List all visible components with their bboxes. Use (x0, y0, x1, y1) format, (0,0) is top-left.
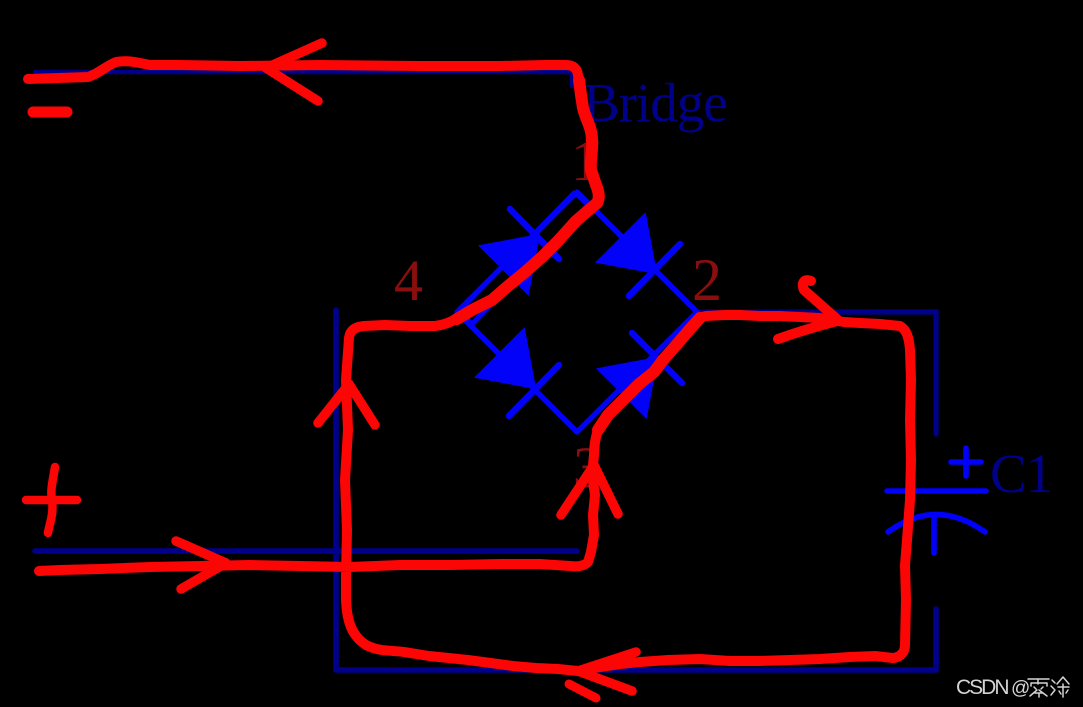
svg-text:Bridge: Bridge (583, 72, 727, 133)
red overlay diode arm 4-1 (457, 203, 597, 319)
svg-text:C1: C1 (990, 443, 1052, 504)
capacitor C1 top plate (887, 488, 986, 494)
bridge rectifier U1 diamond (457, 192, 697, 432)
wire node 2 to capacitor C1 top (700, 312, 936, 434)
diode body rectangle on arm 4-1 (459, 192, 588, 324)
capacitor C1 polarity plus sign (951, 448, 981, 476)
arrowhead node 2 to capacitor (points right), hooked upper barb (803, 280, 838, 320)
wire bottom of output loop (336, 667, 936, 673)
watermark hanzi ling (1028, 679, 1049, 697)
diode D4 cathode bar (632, 333, 682, 383)
arrowhead bottom-left input (points right) (176, 541, 226, 589)
diode D2 cathode bar (629, 244, 680, 296)
svg-text:@: @ (1011, 678, 1030, 699)
svg-text:2: 2 (692, 247, 722, 313)
diode D1 triangle (arm 4-1) (480, 235, 539, 294)
minus terminal mark (33, 107, 67, 118)
watermark hanzi tu (1051, 677, 1069, 697)
capacitor C1 curved bottom plate (888, 515, 985, 533)
svg-text:4: 4 (394, 248, 423, 313)
svg-text:CSDN: CSDN (956, 676, 1008, 699)
diode D3 cathode bar (509, 365, 559, 416)
arrowhead bottom loop (points left) (578, 652, 636, 691)
wire bottom-left AC line to node 3 (35, 548, 577, 554)
wire left vertical of output loop (333, 310, 339, 669)
wire capacitor C1 bottom to loop (933, 609, 939, 668)
arrowhead node 3 vertical (points up) (561, 465, 618, 515)
red overlay diode arm 3-2 (598, 318, 700, 430)
diode D3 triangle (arm 4-3) (476, 329, 535, 388)
red overlay wire into node 1 (579, 80, 599, 203)
diode D2 triangle (arm 1-2) (597, 214, 656, 273)
diode D4 triangle (arm 3-2) (598, 358, 657, 417)
arrowhead top (points left) (266, 43, 322, 101)
arrowhead left vertical (points up) (318, 384, 375, 425)
small stroke under bottom arrow (569, 684, 596, 698)
arrowhead lower barb (778, 321, 837, 339)
capacitor C1 bottom lead stub (931, 517, 937, 553)
diode D1 cathode bar (510, 209, 559, 259)
plus terminal mark (26, 467, 77, 533)
red current-flow main trace (28, 61, 911, 671)
wire top AC line to node 1 (35, 72, 572, 86)
